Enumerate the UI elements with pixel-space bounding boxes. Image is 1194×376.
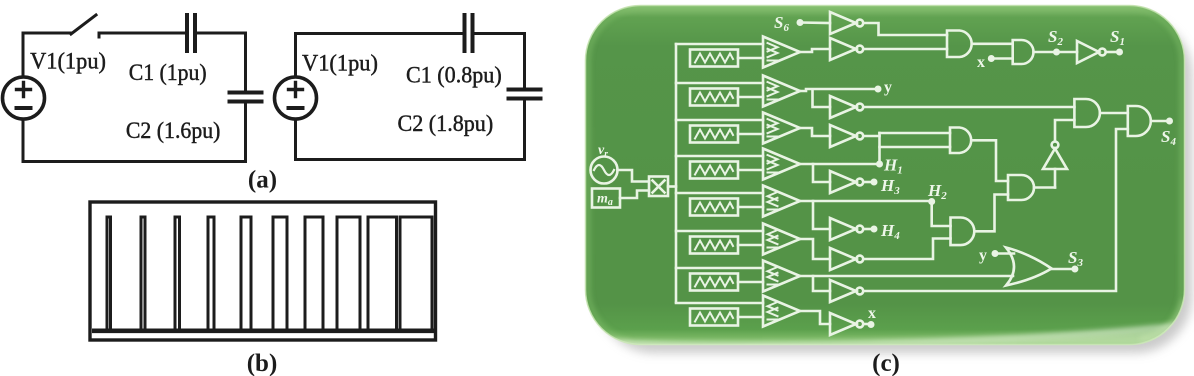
wire to AND C bottom input [880, 146, 951, 149]
comparator K7 [763, 261, 800, 292]
wire NOT to S1 node [1106, 51, 1118, 54]
wire N6 up to AND G6 bottom input [864, 239, 951, 260]
PWM waveform baseline [92, 328, 434, 333]
comparator K2 [763, 76, 800, 107]
node x dot (bottom) [868, 321, 875, 328]
wire OR to S3 node [1051, 268, 1072, 271]
wire sine to X [618, 170, 650, 182]
vertical distribution bus [675, 44, 678, 302]
AND gate D [1074, 99, 1100, 127]
node H4 dot [871, 226, 878, 233]
wire AND D to AND E top input [1100, 112, 1128, 115]
wire G5 to junction below NOT [1034, 186, 1055, 189]
row 5 carrier sawtooth box [690, 199, 738, 216]
row 6 wire box to comparator [738, 244, 763, 247]
wire AND A to AND B [973, 42, 1013, 45]
row 2 wire box to comparator [738, 96, 763, 99]
wire N4 to H3 node [864, 181, 872, 184]
node y dot [875, 86, 882, 93]
row 4 wire box to comparator [738, 169, 763, 172]
wire X to bus [668, 185, 676, 188]
svg-text:C2 (1.8pu): C2 (1.8pu) [398, 111, 494, 137]
panel body [586, 6, 1185, 345]
row 1 carrier sawtooth box [690, 50, 738, 67]
row 1 wire box to comparator [738, 57, 763, 60]
row 1 bus branch wire [676, 43, 763, 46]
inverter N8 [830, 313, 856, 335]
svg-text:C2 (1.6pu): C2 (1.6pu) [126, 118, 220, 144]
wire K5 branch down to inverter N5 [813, 201, 830, 229]
comparator K5 [763, 186, 800, 217]
wire switch to C1 [99, 33, 185, 37]
node H3 dot [871, 179, 878, 186]
row 4 bus branch wire [676, 155, 763, 158]
capacitor C2 plates circuit 2 [509, 90, 541, 99]
row 8 bus branch wire [676, 302, 763, 305]
inverter N1 [830, 38, 856, 60]
PWM waveform pulses [107, 217, 432, 331]
wire H2 node down to AND G6 top input [932, 202, 951, 227]
wire K4 branch down to inverter N4 [813, 164, 830, 182]
wire comparator K3 to inverter N3 [800, 128, 830, 136]
wire N8 to x node [864, 323, 869, 326]
wire N3 out to junction column [864, 135, 880, 138]
svg-text:C1 (0.8pu): C1 (0.8pu) [406, 62, 502, 88]
wire AND E to S4 node [1151, 120, 1167, 123]
wire comparator K8 to inverter N8 [800, 311, 830, 324]
wire comparator K2 to y node [800, 89, 876, 91]
wire S2 node to NOT [1057, 51, 1078, 54]
wire bottom circuit 2 [296, 102, 525, 160]
comparator K1 [763, 37, 800, 68]
junction vertical H1 column [878, 133, 881, 164]
node H2 dot [928, 198, 935, 205]
svg-text:(a): (a) [248, 167, 277, 194]
row 2 carrier sawtooth box [690, 89, 738, 106]
voltage source V1 circle [3, 77, 45, 119]
node S6 dot [797, 19, 804, 26]
comparator K6 [763, 224, 800, 255]
node S2 dot [1053, 49, 1060, 56]
svg-text:x: x [977, 54, 985, 71]
svg-text:(c): (c) [872, 350, 900, 376]
comparator K3 [763, 113, 800, 144]
vertical wire junction to NOT input [1054, 169, 1057, 188]
AND gate B [1013, 40, 1034, 64]
row 2 bus branch wire [676, 82, 763, 85]
wire N5 to H4 node [864, 228, 872, 231]
long wire comparator K5 to H2 node [800, 200, 929, 203]
row 8 wire box to comparator [738, 316, 763, 319]
wire to right corner circuit 2 [475, 34, 525, 87]
row 7 wire box to comparator [738, 281, 763, 284]
minus symbol [289, 106, 303, 110]
row 8 carrier sawtooth box [690, 309, 738, 326]
AND gate C [950, 128, 971, 154]
NOT gate vertical [1043, 149, 1067, 170]
wire AND C to AND G5 top input [972, 140, 1008, 181]
wire comparator K6 down to inverter N6 [800, 239, 830, 259]
AND gate E [1128, 106, 1151, 136]
AND gate A [947, 31, 972, 58]
svg-text:C1 (1pu): C1 (1pu) [129, 60, 207, 86]
inverter N3 [830, 125, 856, 147]
wire C2 down and bottom wire [23, 105, 246, 162]
row 7 bus branch wire [676, 267, 763, 270]
svg-text:y: y [979, 247, 987, 264]
capacitor C2 plates [230, 93, 262, 102]
minus symbol [17, 106, 31, 110]
inverter N4 [830, 171, 856, 193]
node S4 dot [1166, 118, 1173, 125]
NOT gate S2 to S1 [1077, 41, 1099, 63]
row 5 wire box to comparator [738, 206, 763, 209]
circuit 2 top wire [296, 34, 464, 78]
multiplier X box [649, 177, 668, 197]
svg-text:V1(1pu): V1(1pu) [30, 48, 106, 74]
row 4 carrier sawtooth box [690, 162, 738, 179]
svg-text:V1(1pu): V1(1pu) [302, 51, 378, 77]
capacitor C1 plates [187, 15, 195, 51]
panel inner rim light [588, 8, 1182, 342]
row 3 bus branch wire [676, 119, 763, 122]
wire m_a to X [620, 191, 649, 199]
comparator K8 [763, 296, 800, 327]
wire y node to OR top input [996, 252, 1014, 255]
long wire N7 to right bus up to AND E bottom input [864, 129, 1128, 291]
svg-text:x: x [868, 305, 876, 322]
long wire N2 to AND D top input [864, 106, 1075, 109]
frame [90, 202, 436, 340]
switch S1 blade [71, 15, 96, 34]
panel bottom gloss sweep [584, 326, 1185, 345]
OR gate [1006, 248, 1052, 286]
node S1 dot [1116, 49, 1123, 56]
plus symbol [17, 83, 31, 97]
node x input wire to AND B [991, 57, 1012, 60]
inverter N2 [830, 96, 856, 118]
capacitor C1 plates circuit 2 [465, 15, 473, 51]
inverter N6 [830, 248, 856, 270]
node H1 dot [876, 161, 883, 168]
wire K2 branch down to inverter N2 [813, 90, 831, 107]
row 6 carrier sawtooth box [690, 237, 738, 254]
wire comparator K1 to inverter N1 [800, 49, 830, 52]
node S3 dot [1071, 266, 1078, 273]
row 6 bus branch wire [676, 230, 763, 233]
wire top left of circuit 1 [23, 33, 71, 77]
node y dot (OR input) [992, 250, 999, 257]
wire comparator K4 to H1 node [800, 163, 877, 166]
wire G6 to AND G5 bottom input [975, 195, 1009, 232]
wire comparator K7 to OR bottom input [800, 275, 1013, 278]
plus symbol [289, 83, 303, 97]
wire K7 branch down to inverter N7 [813, 276, 830, 291]
AND gate G6 [951, 218, 975, 246]
inverter N5 [830, 218, 856, 240]
panel drop shadow [597, 17, 1192, 353]
wire NOT to AND D bottom input [1055, 120, 1074, 142]
node S6 wire [801, 21, 830, 24]
m_a box [592, 189, 620, 208]
comparator K4 [763, 149, 800, 180]
AND gate G5 [1008, 175, 1034, 200]
row 7 carrier sawtooth box [690, 274, 738, 291]
svg-text:(b): (b) [247, 350, 278, 376]
rows: carrier boxes, comparators [676, 37, 800, 327]
wire AND B to S2 node [1034, 51, 1055, 54]
wire N1 to AND A bottom input [864, 48, 948, 51]
wire N0 to AND A top input [864, 23, 948, 35]
row 5 bus branch wire [676, 192, 763, 195]
wire to AND C top input [880, 132, 951, 135]
sine source circle v_r [591, 157, 618, 184]
node x dot (AND B input) [988, 55, 995, 62]
row 3 wire box to comparator [738, 133, 763, 136]
row 3 carrier sawtooth box [690, 126, 738, 143]
svg-text:y: y [884, 79, 892, 96]
inverter N7 [830, 280, 856, 302]
wire C1 to right corner [197, 33, 246, 89]
inverter N0 (S6 row) [830, 12, 856, 34]
voltage source V1 circle circuit 2 [275, 77, 317, 119]
corner glows [592, 322, 632, 344]
